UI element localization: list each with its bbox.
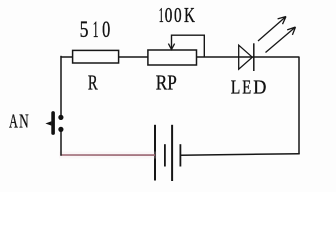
battery plate long 2 <box>171 125 173 181</box>
LED diode triangle <box>239 45 253 69</box>
pushbutton AN lower contact dot <box>58 127 63 132</box>
svg-text:R: R <box>88 70 98 94</box>
label LED <box>231 77 267 99</box>
resistor R <box>73 50 119 63</box>
svg-text:A: A <box>9 110 18 132</box>
pushbutton AN actuator bar <box>51 113 55 133</box>
red wire halo <box>59 152 157 159</box>
battery plate short 1 <box>164 144 166 166</box>
potentiometer RP <box>148 50 197 65</box>
svg-text:E: E <box>242 77 251 99</box>
wire bottom right <box>180 154 299 156</box>
svg-text:0: 0 <box>102 17 110 42</box>
svg-text:1: 1 <box>93 17 99 42</box>
wire right vertical <box>298 57 300 154</box>
wire top bus <box>60 56 299 58</box>
svg-text:1: 1 <box>159 3 164 27</box>
wire left vertical upper <box>60 56 62 118</box>
svg-text:D: D <box>253 77 266 99</box>
pushbutton AN upper contact dot <box>58 115 63 120</box>
svg-text:K: K <box>184 3 195 27</box>
LED cathode bar <box>253 43 255 71</box>
svg-text:L: L <box>231 77 241 99</box>
label 510 <box>80 17 111 42</box>
svg-text:0: 0 <box>174 3 182 27</box>
pushbutton AN actuator stem <box>45 121 51 125</box>
wire bottom left red <box>60 154 155 156</box>
label 100K <box>159 3 195 27</box>
wiper arrow of RP <box>172 35 205 56</box>
battery plate long 1 <box>154 125 156 181</box>
svg-text:0: 0 <box>165 3 173 27</box>
wire left vertical lower <box>60 130 62 156</box>
battery plate short 2 <box>179 144 181 166</box>
svg-text:RP: RP <box>156 70 177 94</box>
svg-text:5: 5 <box>80 17 89 42</box>
LED light arrow 1 <box>258 17 286 42</box>
label AN <box>9 110 29 132</box>
LED light arrow 2 <box>266 27 296 53</box>
svg-text:N: N <box>19 110 29 132</box>
